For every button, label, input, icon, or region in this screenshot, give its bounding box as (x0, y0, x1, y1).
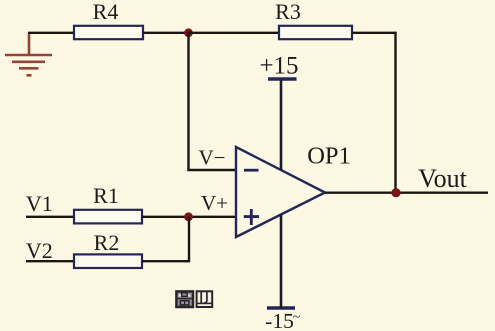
wire +15 to op-amp (280, 80, 283, 170)
wire op-amp to -15 (280, 215, 283, 309)
node A junction (184, 28, 193, 37)
svg-text:V−: V− (198, 146, 225, 170)
svg-text:V+: V+ (201, 191, 228, 215)
svg-text:V2: V2 (26, 238, 53, 263)
op-amp minus symbol (244, 169, 259, 172)
wire R2 up to node B (142, 217, 189, 261)
op-amp plus symbol (244, 209, 259, 225)
wire R1 to op-amp + input (142, 216, 235, 218)
wire node A to R3 (188, 32, 279, 34)
svg-text:R2: R2 (94, 230, 120, 255)
caption "圖四" (Figure 4) drawn as strokes (176, 291, 212, 307)
svg-text:+15: +15 (259, 53, 298, 80)
svg-text:Vout: Vout (418, 164, 467, 193)
resistor R1 (74, 210, 142, 224)
ground (5, 33, 52, 75)
wire V1 to R1 (26, 216, 74, 218)
wire V2 to R2 (26, 260, 74, 262)
svg-text:~: ~ (293, 310, 301, 325)
svg-text:V1: V1 (26, 191, 53, 216)
svg-text:-15: -15 (265, 309, 294, 331)
resistor R3 (279, 26, 352, 39)
char 四 (197, 291, 213, 307)
resistor R4 (74, 26, 143, 39)
wire ground to R4 (28, 32, 73, 34)
+15 supply bar (268, 77, 297, 80)
node B junction V+ (184, 212, 193, 221)
wire R4 to node A (143, 32, 188, 34)
wire feedback node A to V- input (189, 33, 236, 170)
wire R3 to output node (352, 33, 396, 193)
svg-text:R4: R4 (93, 0, 119, 24)
svg-text:R3: R3 (275, 0, 301, 24)
svg-text:OP1: OP1 (307, 143, 351, 170)
op-amp OP1 triangle (236, 147, 325, 237)
output node junction (391, 188, 400, 197)
char 圖 (176, 291, 193, 307)
svg-text:R1: R1 (93, 183, 119, 208)
wire op-amp output to Vout (325, 191, 488, 193)
resistor R2 (74, 254, 142, 268)
-15 supply bar (267, 306, 295, 309)
